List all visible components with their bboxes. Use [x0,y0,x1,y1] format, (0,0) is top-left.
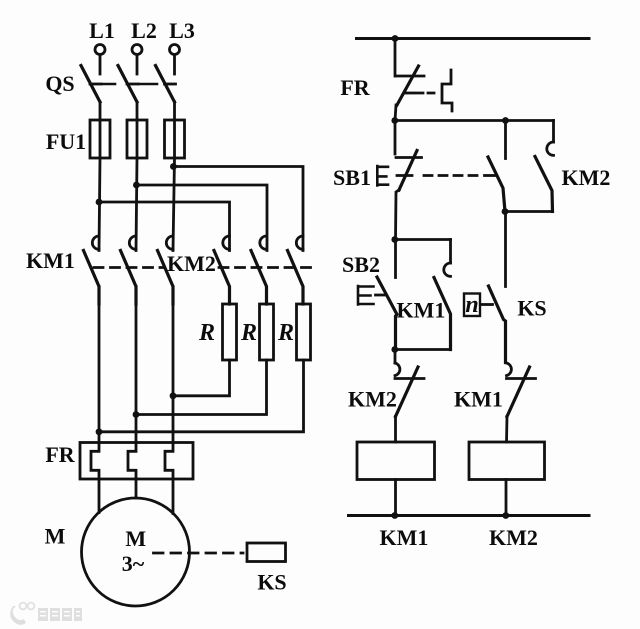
KS linkage dash [482,303,493,306]
svg-text:KM2: KM2 [562,165,611,190]
SB2 actuator E [358,286,374,305]
svg-text:KM2: KM2 [348,387,397,412]
svg-text:M: M [45,524,66,549]
wire KM1 pole 1 down [98,287,101,443]
svg-text:L2: L2 [131,18,157,43]
node SB2 bottom junction [391,346,398,353]
wire QS to FU1 phase B [136,102,139,120]
contactor KM2 pole 5 [260,236,267,249]
wire QS to FU1 phase C [173,102,176,120]
disconnect QS pole 2 blade [118,66,137,103]
thermal relay FR box [80,443,193,480]
svg-text:SB1: SB1 [333,165,371,190]
SB1 actuator E [377,166,388,186]
wire horizontal to KM1 seal [395,238,451,241]
wire R2 bottom to phase B [136,360,267,415]
fuse FU1 element 3 [165,120,185,158]
motor M circle [82,498,190,606]
wire KM1 pole 2 down [135,287,138,443]
node rail/seal junction [391,117,398,124]
contactor KM1 pole 3 [166,236,173,249]
SB1 NO contact (parallel, x=505) [504,121,507,159]
resistor R phase B [260,304,274,360]
svg-text:M: M [125,526,146,551]
disconnect QS pole 3 tick [165,83,176,86]
svg-text:FU1: FU1 [46,129,86,154]
svg-text:KS: KS [517,296,546,321]
wire QS to FU1 phase A [99,102,102,120]
svg-text:QS: QS [45,71,74,96]
wire FR to motor A [98,479,101,513]
wire phase B below fuse to KM1 pole 2 [136,158,137,251]
FR heater element 2 [128,443,136,480]
node bottom rail junction 2 [502,512,509,519]
node L1 terminal circle [95,45,105,55]
FR NC contact blade [397,66,419,105]
contactor KM1 pole 1 [92,236,99,249]
resistor R phase C [297,304,311,360]
disconnect QS pole 1 tick [90,83,101,86]
node junction phase B to KM2 branch [133,182,140,189]
SB2 linkage dash [376,294,385,297]
node junction phase A to KM2 branch [96,199,103,206]
wire branch A [99,202,230,251]
FR heater element 1 [91,443,99,480]
node junction R2/phase B [133,411,140,418]
wire FR to node [395,105,396,121]
wire SB1 to SB2 node [396,190,400,240]
pushbutton SB1 (NC stop) [394,121,397,155]
wire L3 drop [173,55,176,74]
node SB2 top junction [391,236,398,243]
wire branch B [136,185,267,251]
FR NC contact bar [396,75,425,78]
svg-text:L3: L3 [169,18,195,43]
wire L1 drop [99,55,102,74]
bottom rail [349,514,590,517]
svg-text:R: R [277,320,294,346]
wire top rail down [394,39,397,77]
fuse FU1 element 1 [90,120,110,158]
svg-text:SB2: SB2 [342,252,380,277]
FR trip dashed link [417,92,438,95]
interlock KM1 NC contact [507,363,512,376]
svg-text:R: R [240,320,257,346]
watermark [10,603,82,625]
svg-text:KM1: KM1 [380,525,429,550]
wire R3 bottom to phase A [99,360,304,432]
wire branch C [173,167,303,251]
svg-text:R: R [198,320,215,346]
disconnect QS pole 3 blade [156,66,175,103]
node bottom rail junction 1 [391,512,398,519]
wire KM1 pole 3 down [172,287,175,443]
pushbutton SB2 (NO start) [394,240,397,278]
contactor KM2 pole 4 [223,236,230,249]
coil KM1 [357,442,435,480]
QS linkage dashed [103,83,157,86]
svg-text:KM1: KM1 [26,248,75,273]
contactor KM1 pole 2 [129,236,136,249]
svg-text:KM2: KM2 [489,525,538,550]
speed relay KS contact [489,286,506,363]
wire FR to motor B [135,479,138,498]
wire phase A below fuse to KM1 pole 1 [99,158,100,251]
svg-text:n: n [465,292,478,318]
svg-text:FR: FR [340,75,370,100]
node KM2 seal bottom junction [502,208,509,215]
svg-text:3~: 3~ [122,551,145,576]
SB1 linkage dashed [424,174,483,177]
svg-text:KM1: KM1 [397,298,446,323]
node junction phase C to KM2 branch [170,163,177,170]
dashed link motor to KS [154,552,244,555]
contactor KM2 pole 6 [296,236,303,249]
svg-text:FR: FR [45,442,75,467]
top rail [357,37,590,40]
coil KM2 [469,442,545,480]
FR trip lever [442,70,452,111]
wire R1 bottom to phase C [173,360,230,396]
KM1-KM2 linkage dashed [94,266,164,269]
KS n box [464,294,480,317]
resistor R phase A [223,304,237,360]
wire horizontal to KM2 seal branch [395,119,554,122]
contactor KM2 seal contact [552,121,555,143]
FR NC contact crossbar [404,92,415,95]
interlock KM2 NC contact [394,350,397,364]
node top rail junction [392,35,399,42]
node junction R1/phase C [170,392,177,399]
speed relay KS box [247,543,286,562]
wire right branch down [504,212,507,287]
fuse FU1 element 2 [127,120,147,158]
node seal branch junction [502,117,509,124]
node L2 terminal circle [132,45,142,55]
svg-text:KM1: KM1 [454,387,503,412]
disconnect QS pole 2 tick [127,83,138,86]
svg-text:L1: L1 [89,18,115,43]
wire phase C below fuse to KM1 pole 3 [173,158,175,251]
contactor KM1 seal contact [449,240,452,264]
wire FR to motor C [172,479,175,514]
node L3 terminal circle [170,45,180,55]
FR heater element 3 [165,443,173,480]
wire L2 drop [136,55,139,74]
node junction R3/phase A [96,428,103,435]
svg-text:KS: KS [257,570,286,595]
disconnect QS pole 1 blade [81,66,100,103]
svg-text:KM2: KM2 [167,251,216,276]
